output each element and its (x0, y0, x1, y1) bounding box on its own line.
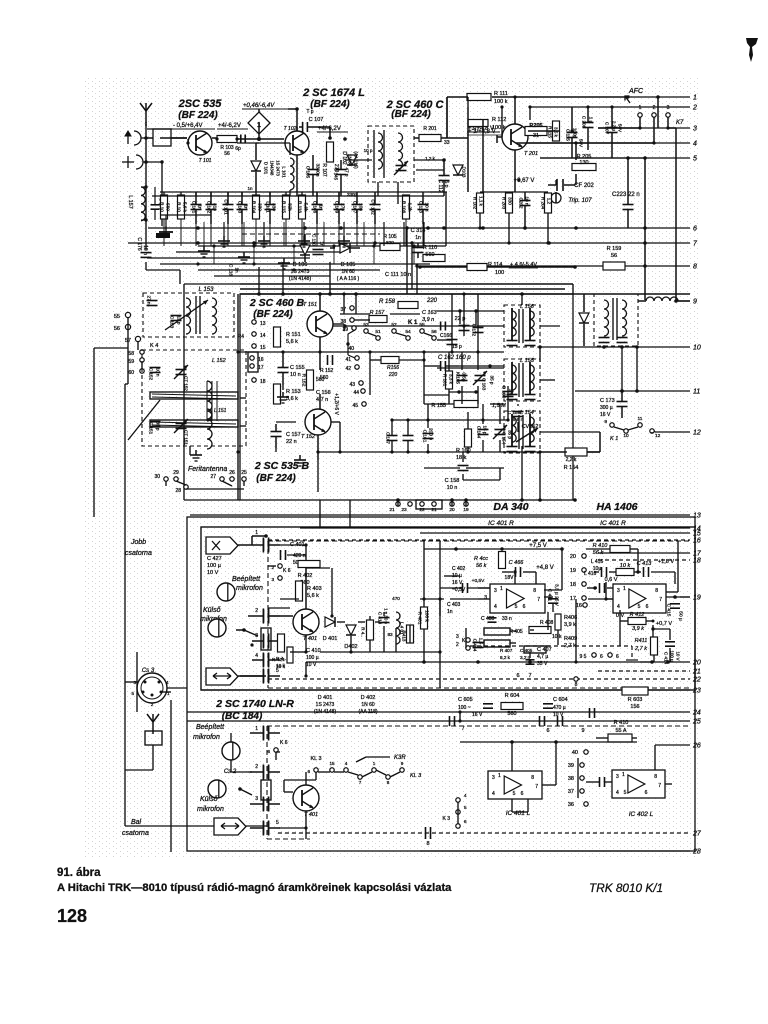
svg-text:10 V: 10 V (207, 570, 219, 576)
terminal number 28 (692, 849, 701, 856)
label C410 (306, 648, 321, 668)
cap 22p mid (455, 316, 470, 331)
svg-text:156: 156 (630, 704, 639, 710)
label Cs2 (224, 769, 237, 775)
svg-text:6: 6 (546, 728, 549, 734)
svg-text:HA 1406: HA 1406 (596, 501, 637, 513)
svg-text:560: 560 (507, 711, 516, 717)
cap 27n (147, 296, 158, 306)
svg-text:R 10: R 10 (177, 202, 182, 212)
svg-text:(1N 4148): (1N 4148) (314, 709, 337, 715)
svg-text:6: 6 (646, 604, 649, 610)
long vertical x184 lower (183, 500, 185, 517)
svg-text:5: 5 (513, 791, 516, 797)
terminal 15t (252, 344, 266, 351)
wire K1L to bottom (125, 383, 128, 385)
svg-text:100 µ: 100 µ (306, 655, 319, 661)
svg-text:D 402: D 402 (361, 695, 376, 701)
label D106 (289, 262, 312, 282)
svg-text:560: 560 (320, 375, 329, 381)
svg-text:4: 4 (617, 604, 620, 610)
IF L 155 core (519, 363, 523, 397)
wire net 17 to edge (598, 552, 690, 554)
svg-text:10 k: 10 k (276, 663, 286, 669)
svg-text:C 110: C 110 (312, 234, 317, 246)
circle trip (551, 193, 561, 203)
terminal number 13 (693, 513, 701, 520)
svg-text:C 145: C 145 (334, 168, 339, 181)
label C411 (544, 584, 560, 612)
svg-text:470: 470 (392, 596, 400, 601)
lead R 104 (255, 219, 257, 246)
wire antenna down (145, 122, 147, 126)
resistor R204v (541, 193, 552, 213)
svg-text:52: 52 (391, 322, 397, 328)
cap C206 (579, 107, 594, 150)
resistor R107v (321, 142, 339, 177)
wire top block to mid 1 (196, 241, 200, 246)
svg-text:L 101: L 101 (282, 166, 287, 178)
label D105 (337, 262, 360, 282)
resistor R205a (525, 123, 547, 139)
wire R156 (370, 358, 426, 361)
svg-text:220: 220 (426, 298, 438, 304)
label 2SC 535 (178, 98, 223, 110)
resistor R411 (634, 637, 657, 655)
label C162 (424, 355, 471, 371)
svg-text:7: 7 (535, 784, 538, 790)
value C 103 (244, 204, 249, 210)
svg-text:1n: 1n (235, 267, 240, 273)
audio bottom wires (512, 745, 655, 812)
svg-text:10 n: 10 n (156, 368, 161, 377)
svg-text:5,6 k: 5,6 k (183, 202, 188, 213)
vertical x412 272 (412, 266, 540, 268)
svg-text:56: 56 (611, 253, 617, 259)
wire ic401l down (512, 799, 528, 812)
svg-text:7: 7 (659, 597, 662, 603)
svg-text:KL 3: KL 3 (310, 756, 321, 762)
svg-text:1: 1 (693, 95, 697, 102)
svg-text:330: 330 (258, 203, 263, 211)
label +7,5V (424, 543, 564, 551)
det cap (599, 338, 628, 343)
svg-text:R 603: R 603 (628, 697, 643, 703)
svg-text:C 105: C 105 (306, 166, 311, 179)
svg-text:39: 39 (568, 763, 574, 769)
label BF224 d (253, 309, 293, 320)
svg-text:30: 30 (154, 474, 160, 480)
audio r410 wires (586, 549, 675, 588)
svg-text:R 4cc: R 4cc (474, 556, 488, 562)
svg-text:11: 11 (638, 416, 643, 422)
cap C161 (422, 428, 434, 443)
label L 156 (520, 304, 535, 310)
wire pent2 (238, 675, 266, 677)
mid vert x452 (451, 294, 453, 334)
svg-text:R 104: R 104 (252, 201, 257, 214)
svg-text:26: 26 (229, 470, 235, 476)
DIN Cs3 (137, 668, 167, 703)
coil L157 (127, 185, 148, 221)
wire net 6 to edge (148, 227, 690, 229)
audio wire x440 (438, 597, 441, 616)
svg-text:10 V: 10 V (676, 651, 681, 660)
bottom extra verts (231, 733, 512, 839)
label voltage a (172, 123, 215, 129)
label 2SC1674 (302, 87, 365, 99)
transistor T152 (301, 409, 331, 440)
svg-text:A Hitachi TRK—8010 típusú rádi: A Hitachi TRK—8010 típusú rádió-magnó ár… (57, 882, 452, 894)
svg-text:29: 29 (173, 470, 179, 476)
wire top to mid left (147, 227, 149, 229)
component R 10 top row (178, 195, 185, 219)
svg-text:5,6k: 5,6k (304, 203, 309, 212)
connector pent X (206, 537, 238, 554)
input box (153, 129, 171, 146)
component C 106 top row (312, 192, 323, 224)
svg-text:R 201: R 201 (423, 126, 437, 132)
IF L 156 caps (507, 341, 536, 346)
svg-text:C 113: C 113 (419, 201, 424, 213)
resistor R410b (608, 720, 632, 742)
svg-text:10 k: 10 k (552, 634, 562, 640)
wire line26 stub (654, 745, 656, 770)
svg-text:C 405: C 405 (520, 648, 533, 653)
IF L 155 caps (507, 395, 536, 400)
erase head block 2 (261, 780, 271, 800)
audio verticals right (548, 572, 675, 664)
svg-text:1n: 1n (247, 186, 253, 191)
svg-text:Trip. 107: Trip. 107 (568, 198, 592, 204)
label L 101 (266, 201, 271, 213)
svg-text:C 116: C 116 (229, 264, 234, 276)
value C 109 (341, 203, 346, 211)
top extra wires y139 (186, 137, 238, 144)
wire R410b (596, 738, 637, 745)
svg-text:820: 820 (386, 240, 394, 245)
wire trip area (555, 180, 557, 203)
mid wire T151 b (333, 324, 344, 331)
component C 102 top row (206, 192, 217, 224)
wire mic3 (231, 760, 252, 795)
wire net 22 to edge (268, 678, 690, 680)
svg-text:L 153: L 153 (199, 287, 215, 293)
svg-text:27 n: 27 n (147, 296, 152, 305)
resistor R205b (572, 154, 596, 171)
nested corner rails (405, 226, 418, 294)
wire K7 (640, 117, 668, 143)
svg-text:Bal: Bal (131, 819, 142, 826)
opamp IC401L (488, 771, 542, 799)
resistor R159 (603, 246, 625, 270)
svg-text:R 158: R 158 (379, 299, 396, 305)
mid wire y312 k (340, 313, 420, 315)
ground left col (146, 226, 180, 284)
resistor R110 (423, 245, 445, 262)
bottom left mesh (231, 733, 400, 777)
osc coil 2 (394, 133, 408, 175)
top bus y196 (152, 195, 444, 197)
svg-text:9: 9 (604, 419, 607, 425)
cap 6p (235, 135, 245, 153)
mid dots extra (257, 292, 524, 296)
value R 115 (288, 203, 293, 211)
resistor R201 (419, 126, 450, 146)
wire pent2b (246, 825, 267, 827)
resistor R157 (369, 310, 387, 323)
mid wire y368 (437, 367, 504, 369)
svg-text:7: 7 (658, 783, 661, 789)
mid vert x370b (369, 352, 371, 395)
erase head block (261, 628, 271, 650)
label L 155 (520, 358, 535, 364)
small rect eq2 (524, 646, 546, 653)
label C 109 (335, 201, 340, 214)
wire T152 down (317, 435, 319, 492)
svg-text:T 102: T 102 (284, 126, 297, 132)
svg-text:12 p: 12 p (177, 316, 182, 325)
terminal number 2 (692, 105, 697, 112)
wire R201 (414, 137, 468, 139)
label R409 (564, 636, 577, 649)
wire net 10 to edge (540, 346, 690, 348)
label Tp C107 (306, 109, 323, 123)
label IC401R b (600, 520, 626, 527)
svg-text:420 n: 420 n (293, 553, 306, 559)
svg-text:1n: 1n (244, 204, 249, 210)
terminal number 24 (692, 710, 701, 717)
audio dashed inner box (268, 541, 690, 688)
svg-text:CF 202: CF 202 (574, 183, 594, 189)
component C 113 top row (418, 192, 429, 224)
svg-text:9: 9 (693, 299, 697, 306)
label HA1406 (596, 501, 637, 513)
terminal 57 (125, 336, 141, 344)
wire net 21 to edge (598, 670, 690, 672)
audio verticals mid (466, 599, 550, 662)
resistor R158 (379, 298, 438, 309)
svg-text:Beépített: Beépített (232, 576, 261, 583)
audio wire y608 (268, 607, 290, 609)
label 2SC535B (254, 460, 310, 472)
coil L151 (207, 408, 227, 449)
mid wire y340 seg (437, 339, 452, 341)
svg-text:300 µ: 300 µ (600, 405, 613, 411)
verticals into audio (320, 500, 350, 527)
IF transformer L 155 box (504, 359, 540, 401)
svg-text:13: 13 (693, 513, 701, 520)
svg-text:2: 2 (151, 702, 154, 707)
svg-text:17: 17 (258, 365, 264, 371)
svg-text:3: 3 (484, 595, 487, 601)
resistor R401big (417, 607, 430, 629)
mid y468 k (463, 452, 500, 480)
svg-text:22 n: 22 n (286, 439, 297, 445)
wire net 1 to edge (628, 96, 690, 98)
wire top right var (430, 97, 447, 192)
wire T401b (279, 772, 306, 828)
svg-text:2: 2 (255, 764, 258, 770)
svg-text:2: 2 (255, 608, 258, 614)
cap C413 (602, 559, 675, 577)
mid vert x464 (463, 294, 465, 318)
svg-text:2,7 k: 2,7 k (634, 646, 647, 652)
svg-text:R156: R156 (387, 365, 399, 371)
label voltage f (333, 393, 339, 415)
svg-text:R 159: R 159 (607, 246, 622, 252)
lead R 116 (301, 219, 303, 246)
cap C171 label (151, 187, 169, 220)
terminals 6 7 row2 (461, 726, 584, 734)
value C 113 (425, 203, 430, 212)
det winding b (613, 298, 627, 340)
connector pent arrows (206, 668, 238, 685)
svg-text:55: 55 (419, 322, 425, 328)
cap C160 (501, 386, 514, 399)
svg-text:6: 6 (616, 654, 619, 660)
svg-text:3: 3 (255, 796, 258, 802)
svg-text:3: 3 (617, 588, 620, 594)
mid block border (240, 294, 573, 500)
svg-text:R411: R411 (635, 638, 648, 644)
wire IF chain (522, 294, 600, 432)
svg-text:IC 401 R: IC 401 R (488, 520, 514, 527)
mid extra dots (396, 498, 577, 502)
svg-text:C 163: C 163 (482, 378, 487, 391)
svg-text:38: 38 (340, 319, 346, 325)
svg-text:56: 56 (431, 329, 437, 335)
cap C151 (149, 422, 161, 435)
label C405C (500, 648, 533, 660)
svg-text:R 116: R 116 (298, 201, 303, 213)
label D101 (264, 160, 281, 176)
svg-text:27p: 27p (341, 203, 346, 211)
cap IC402L in (600, 777, 605, 787)
svg-text:31p: 31p (213, 203, 218, 211)
mid left wires (238, 294, 246, 500)
wire c107 right (308, 127, 330, 138)
svg-text:8,2 k: 8,2 k (500, 655, 511, 660)
svg-text:330: 330 (508, 197, 513, 205)
svg-text:5,6 k: 5,6 k (286, 339, 298, 345)
svg-text:R406: R406 (564, 615, 577, 621)
svg-text:Feritantenna: Feritantenna (188, 466, 227, 473)
mid wire x356 (355, 294, 357, 314)
ferrite rod hatch 1 (152, 394, 236, 399)
lead L 101 (269, 224, 271, 246)
label C403 (447, 602, 461, 615)
svg-text:1: 1 (255, 530, 258, 536)
svg-text:Külső: Külső (200, 796, 218, 803)
svg-text:7: 7 (528, 673, 531, 679)
svg-text:R 110: R 110 (423, 245, 437, 251)
value C 101 (198, 204, 203, 210)
value C 106 (319, 204, 324, 210)
svg-text:8: 8 (693, 264, 697, 271)
head sym 5 (240, 668, 280, 683)
resistor R111 (467, 91, 508, 105)
cap C105 (306, 155, 321, 196)
label CV 102 (371, 199, 376, 215)
svg-text:R 410: R 410 (593, 543, 609, 549)
svg-text:C 115: C 115 (566, 129, 571, 141)
dashed switch link (470, 646, 638, 660)
svg-text:6: 6 (645, 790, 648, 796)
svg-text:+4/-6,2V: +4/-6,2V (318, 126, 341, 132)
mid wire y404 (424, 403, 504, 405)
terminal 18t (252, 378, 266, 385)
svg-text:+ 3/+4,8 V: + 3/+4,8 V (468, 129, 496, 135)
resistor R155 (431, 401, 506, 410)
svg-text:10 k: 10 k (620, 563, 631, 569)
audio vert x370 (370, 612, 410, 652)
cap C153 (170, 316, 182, 329)
mid vert x424 (423, 352, 425, 404)
label C 113 (419, 201, 424, 213)
svg-text:4,7 µ: 4,7 µ (537, 654, 548, 660)
wire net 2 to edge (530, 106, 690, 108)
svg-text:18: 18 (570, 582, 576, 588)
bus line y276 (214, 275, 330, 277)
svg-text:1: 1 (373, 761, 376, 766)
cap C156 (316, 355, 333, 403)
svg-text:42: 42 (345, 366, 351, 372)
caption text (57, 882, 452, 894)
svg-text:R 4..: R 4.. (276, 656, 286, 662)
svg-text:43: 43 (349, 382, 355, 388)
top rail mid (147, 137, 187, 139)
svg-text:C 158: C 158 (445, 478, 460, 484)
terminals 19-23 row (389, 502, 469, 513)
svg-text:1n: 1n (198, 204, 203, 210)
coil L101 (282, 143, 295, 196)
svg-text:(BF 224): (BF 224) (178, 110, 218, 121)
value R 106 (408, 203, 413, 212)
K4 contacts (238, 334, 264, 372)
svg-text:40: 40 (348, 346, 354, 352)
svg-text:6: 6 (693, 226, 697, 233)
svg-text:16: 16 (576, 603, 582, 609)
svg-text:C 173: C 173 (600, 398, 615, 404)
resistor R404v (361, 620, 374, 640)
svg-text:K 4: K 4 (150, 343, 158, 349)
terminal number 19 (693, 595, 701, 602)
svg-text:5: 5 (276, 820, 279, 826)
svg-text:40: 40 (572, 750, 578, 756)
terminal number 7 (693, 241, 698, 248)
switch K1 left (128, 343, 158, 376)
svg-text:R 107: R 107 (321, 163, 327, 177)
wires K1 left (128, 317, 142, 384)
switch sel right (236, 628, 258, 646)
svg-text:R 154: R 154 (564, 465, 579, 471)
terminal number 4 (693, 141, 697, 148)
svg-text:C 466: C 466 (509, 560, 525, 566)
wire net 14 to edge (300, 527, 690, 529)
transistor T401a (293, 609, 319, 642)
label BF224 e (256, 473, 296, 484)
top pocket D101 (251, 143, 261, 192)
cap C159 (508, 410, 524, 423)
svg-text:15 p: 15 p (452, 344, 462, 350)
mid switch wires (368, 333, 432, 336)
label voltage d (467, 129, 502, 135)
cap C404 (472, 638, 484, 652)
svg-text:18V: 18V (505, 575, 515, 581)
svg-text:K3R: K3R (394, 755, 406, 761)
svg-text:+7,5 V: +7,5 V (529, 543, 547, 549)
